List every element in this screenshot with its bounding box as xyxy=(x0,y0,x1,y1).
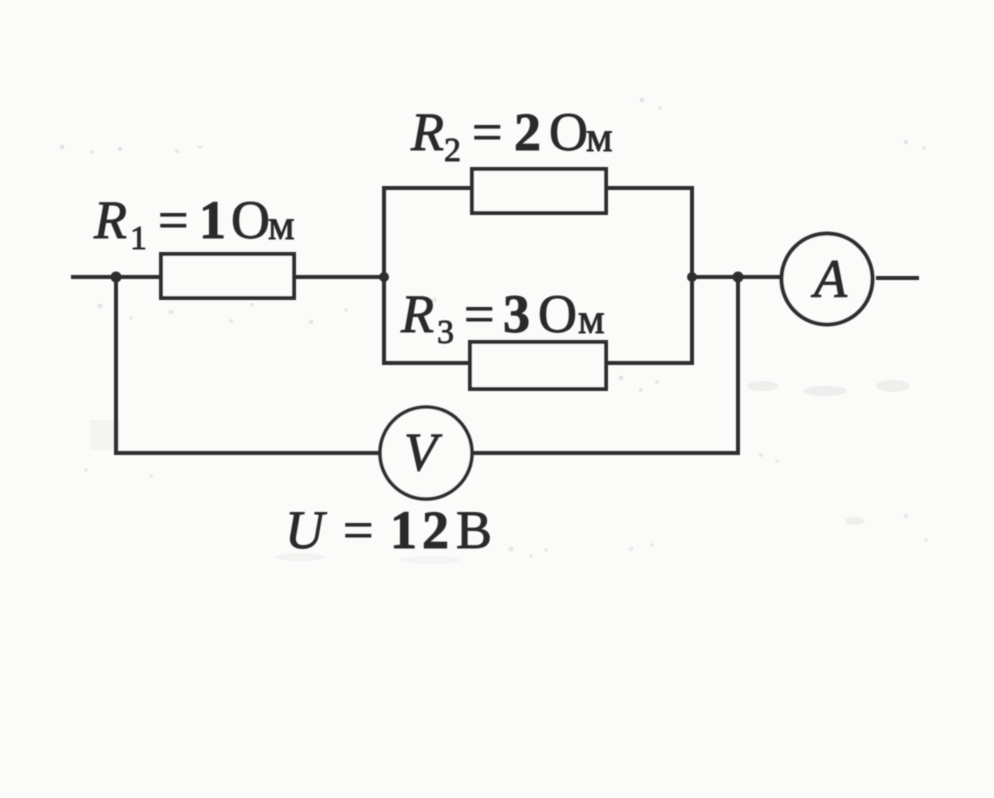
wire R1 to parallel split xyxy=(294,275,384,279)
svg-text:3: 3 xyxy=(503,284,530,344)
wire right stub xyxy=(876,276,919,280)
wire top branch left xyxy=(382,186,472,190)
svg-text:2: 2 xyxy=(444,132,461,169)
svg-text:=: = xyxy=(343,500,373,560)
svg-text:О: О xyxy=(538,284,577,344)
wire left loop vertical xyxy=(114,277,118,453)
svg-text:1: 1 xyxy=(199,190,226,250)
svg-text:2: 2 xyxy=(514,102,541,162)
svg-text:м: м xyxy=(578,297,605,343)
svg-text:м: м xyxy=(268,203,295,249)
wire left stub xyxy=(71,275,161,279)
resistor R1 xyxy=(161,254,294,298)
wire bottom loop left xyxy=(114,451,381,455)
node left junction xyxy=(111,272,122,283)
svg-text:=: = xyxy=(464,284,494,344)
svg-text:A: A xyxy=(811,249,848,309)
resistor R2 xyxy=(472,169,606,213)
wire bottom loop right xyxy=(472,451,740,455)
node parallel left junction xyxy=(379,272,389,282)
voltmeter V xyxy=(380,407,472,499)
wire left parallel vertical xyxy=(382,188,386,363)
svg-text:3: 3 xyxy=(437,314,454,351)
wire parallel to ammeter xyxy=(692,275,781,279)
ammeter A xyxy=(782,234,873,325)
svg-text:О: О xyxy=(231,190,270,250)
svg-text:В: В xyxy=(456,500,492,560)
svg-text:м: м xyxy=(586,115,613,161)
resistor R3 xyxy=(470,342,606,389)
svg-text:О: О xyxy=(549,102,588,162)
svg-text:R: R xyxy=(400,284,434,344)
wire bottom branch left xyxy=(382,361,470,365)
svg-text:R: R xyxy=(410,102,444,162)
node voltmeter tap junction xyxy=(733,272,744,283)
svg-text:=: = xyxy=(472,102,502,162)
node parallel right junction xyxy=(687,272,697,282)
wire top branch right xyxy=(606,186,694,190)
wire right parallel vertical xyxy=(690,188,694,363)
svg-text:=: = xyxy=(158,190,188,250)
svg-text:12: 12 xyxy=(390,500,454,560)
wire bottom branch right xyxy=(606,361,694,365)
svg-text:U: U xyxy=(285,500,327,560)
wire right loop vertical xyxy=(736,277,740,455)
svg-text:1: 1 xyxy=(130,220,147,257)
svg-text:R: R xyxy=(93,190,127,250)
